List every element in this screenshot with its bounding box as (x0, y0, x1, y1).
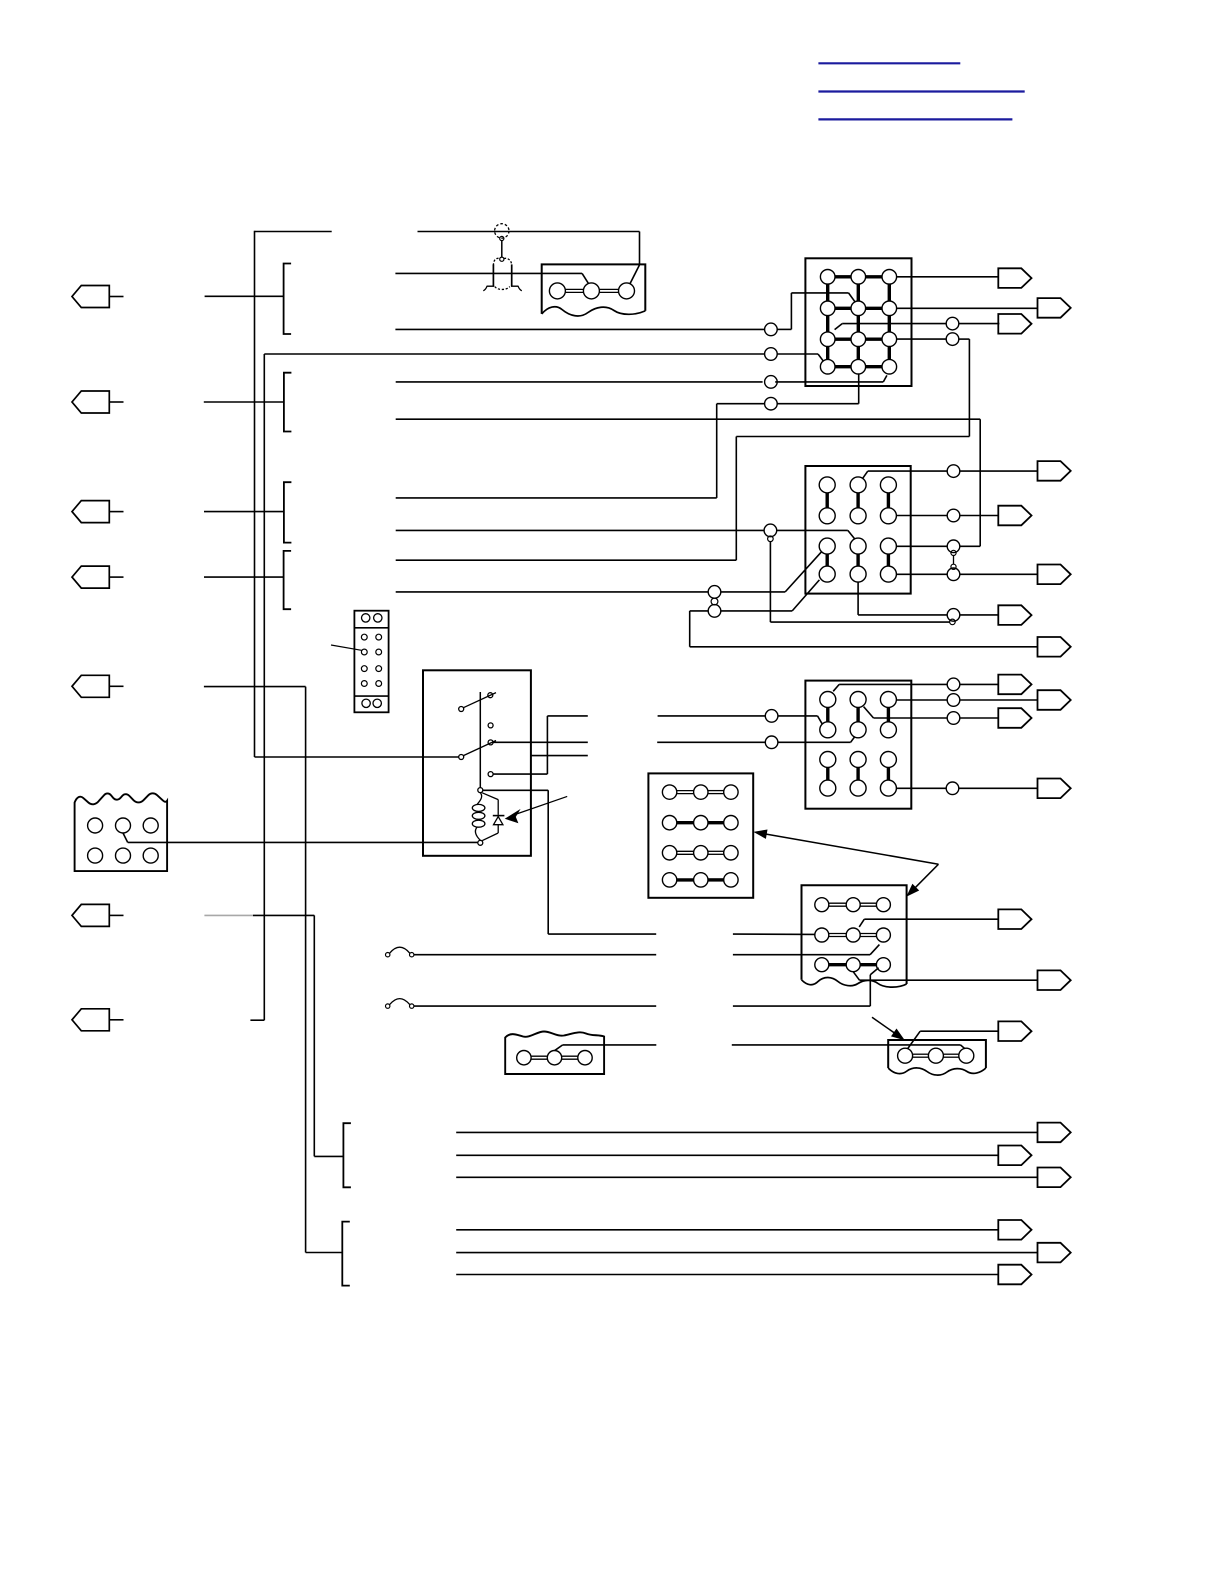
inline connector circles column x953 (946, 317, 959, 330)
pin (362, 699, 370, 707)
pin (662, 846, 676, 860)
relay switch2 contact (488, 740, 493, 745)
wire to connector T (456, 1252, 1037, 1254)
connector N (right) (1038, 970, 1071, 990)
pin (116, 818, 131, 833)
wire J3 r4c3 to connector L (896, 787, 946, 789)
J2 pin (819, 477, 835, 493)
J3 pin (880, 722, 896, 738)
double-headed reference arrow (766, 834, 938, 864)
splice bracket B6 (342, 1222, 350, 1286)
inline connector circle (765, 736, 778, 749)
J1 pin (851, 270, 866, 285)
J1 pin (851, 359, 866, 374)
terminal circle (549, 283, 565, 299)
connector S (right) (998, 1220, 1031, 1240)
relay contact lower (488, 772, 493, 777)
wire J1 r3c3 net (396, 559, 737, 561)
pin (143, 848, 158, 863)
J1 pin (820, 270, 835, 285)
J2 pin (850, 508, 866, 524)
fusible link double wire 1 (566, 288, 584, 290)
wire lamp stem (501, 241, 503, 257)
hyperlink underline 1 (818, 62, 960, 64)
J3 pin (850, 780, 866, 796)
relay mid contact (488, 723, 493, 728)
J3 pin (850, 752, 866, 768)
pin (361, 666, 367, 672)
wire 6-circle box to relay coil (123, 833, 128, 842)
splice bracket B1 (284, 264, 292, 335)
lamp L1 base terminal (500, 236, 504, 240)
rear harness connector (partial view, bottom right) (888, 1040, 986, 1068)
pin (846, 958, 860, 972)
wire CB2 to block5 r3c3 (414, 1005, 656, 1007)
pin (959, 1048, 974, 1063)
pin (88, 848, 103, 863)
pin (517, 1051, 531, 1065)
connector C2 (left) (72, 391, 109, 413)
inline connector circle (765, 710, 778, 723)
wire drop into fusible-link box (639, 232, 641, 265)
junction block J3 (805, 681, 911, 809)
wire C4 to splice bracket (204, 576, 284, 578)
wire block5 r2c2 to connector M (859, 919, 864, 927)
wire stub into J1 r4c3 (396, 381, 763, 383)
wire J2 r3c3 net to stub (396, 418, 981, 420)
pin (846, 928, 860, 942)
J1 pin (851, 332, 866, 347)
pin (724, 785, 738, 799)
wire J3 r1c1 to connector I (833, 684, 839, 691)
J3 pin (880, 752, 896, 768)
pin (662, 816, 676, 830)
wire connector D to J2 r4c1 (690, 646, 1038, 648)
pin (694, 816, 708, 830)
wire bus1 top segment a (255, 231, 332, 233)
circuit breaker CB2 (386, 1004, 390, 1008)
connector C3 (left) (72, 501, 109, 523)
pin (724, 873, 738, 887)
J1 pin (851, 301, 866, 316)
J3 pin (880, 780, 896, 796)
connector D (right) (1038, 637, 1071, 657)
wire J2 r1c2 to connector E (863, 471, 868, 478)
pin (694, 873, 708, 887)
leader line to connector block (331, 645, 362, 650)
lamp socket terminal (500, 257, 504, 261)
J3 pin (850, 692, 866, 708)
wire box3 to box2 (555, 1045, 563, 1051)
wire stub into J2 r3c2 (396, 529, 764, 531)
wire block5 r3c2 to connector N (853, 972, 859, 981)
wire J2 r2c3 to connector F (896, 515, 947, 517)
pin (116, 848, 131, 863)
wire J1 r1c3 to connector A (897, 276, 999, 278)
J1 pin (882, 359, 897, 374)
wire J1 r2c3 to connector B (897, 307, 1038, 309)
wire into fusible link right terminal (630, 265, 639, 284)
wire C6 down to bracket B5 (253, 914, 314, 916)
J1 pin (820, 332, 835, 347)
wire J3 r1c3 to connector J (896, 699, 947, 701)
pin (362, 614, 370, 622)
inline connector pair small (768, 536, 774, 542)
splice bracket B5 (343, 1123, 351, 1187)
connector H (right) (998, 605, 1031, 625)
connector P (right) (1038, 1123, 1071, 1143)
connector C1 (left) (72, 286, 109, 308)
J3 pin (820, 780, 836, 796)
connector M (right) (998, 909, 1031, 929)
J2 pin (850, 566, 866, 582)
relay switch1 lever (463, 693, 496, 708)
J2 pin (880, 477, 896, 493)
pin (876, 898, 890, 912)
wire branch from pair down to x953 (769, 542, 771, 623)
connector detail block B4v (648, 773, 753, 897)
pin (578, 1051, 592, 1065)
J3 pin (880, 692, 896, 708)
junction block J2 (805, 466, 910, 594)
terminal circle (619, 283, 635, 299)
relay switch1 pivot (459, 707, 464, 712)
connector T (right) (1038, 1243, 1071, 1263)
wire to connector U (456, 1274, 998, 1276)
wire C5 down to bracket B6 (204, 686, 306, 688)
box2 double links (913, 1053, 929, 1055)
J2 pin (819, 566, 835, 582)
connector C5 (left) (72, 675, 109, 697)
J3 internal bars (826, 708, 829, 722)
wire to connector P (456, 1131, 1037, 1133)
reference arrow to box2 (872, 1017, 896, 1034)
J2 pin (880, 566, 896, 582)
J3 pin (850, 722, 866, 738)
instrument panel connector (partial view, left) (75, 793, 168, 871)
wire bus1 vertical (254, 231, 256, 757)
connector J (right) (1038, 690, 1071, 710)
wire J2 r4c3 to connector G (896, 573, 947, 575)
wire to connector R (456, 1176, 1037, 1178)
J2 pin (850, 477, 866, 493)
splice bracket B4 (284, 551, 292, 609)
pin (876, 958, 890, 972)
fusible link double wire 2 (600, 288, 619, 290)
pin (662, 785, 676, 799)
connector K (right) (998, 708, 1031, 728)
label leader arrow to diode (517, 796, 568, 814)
pin (376, 666, 382, 672)
wire stub into J1 r4c2 (396, 497, 717, 499)
wire bus2 vertical (263, 354, 265, 1020)
wire relay to J3 r2c1 (547, 715, 587, 717)
wire stub into J2 r3c1 (396, 591, 709, 593)
pin (898, 1048, 913, 1063)
wire C1 to splice bracket (205, 295, 284, 297)
connector block 2x7 (354, 611, 388, 713)
connector L (right) (1038, 779, 1071, 799)
wire relay contact to J3 r2c2 (493, 741, 588, 743)
pin (815, 928, 829, 942)
inline connector pair big (764, 524, 777, 537)
J2 pin (819, 538, 835, 554)
junction block B5v (partial view) (802, 885, 907, 984)
connector C6 (left) (72, 904, 109, 926)
pin (373, 699, 381, 707)
box3 double links (531, 1055, 547, 1057)
wire bus2 bottom tick (250, 1019, 264, 1021)
wire bus2 to junction block J1 pin r4c1 (264, 353, 764, 355)
J1 pin (882, 270, 897, 285)
pin (724, 846, 738, 860)
wire relay lower contact to junction (493, 773, 547, 775)
connector A (right) (998, 268, 1031, 288)
connector C7 (left) (72, 1009, 109, 1031)
wire J2 r4c2 to connector H (857, 582, 859, 615)
J2 pin (880, 538, 896, 554)
pin (376, 634, 382, 640)
J3 pin (820, 692, 836, 708)
wire relay coil to block5 (483, 789, 548, 791)
relay coil top terminal (478, 788, 483, 793)
pin (361, 681, 367, 687)
wire to connector S (456, 1229, 998, 1231)
wire CB1 to block5 r2c3 (414, 954, 656, 956)
block5 row links (829, 902, 846, 904)
J3 pin (820, 752, 836, 768)
connector O (right) (998, 1021, 1031, 1041)
pin (361, 649, 367, 655)
J2 pin (850, 538, 866, 554)
wire J1 r3c1 to connector (835, 324, 843, 330)
connector R (right) (1038, 1168, 1071, 1188)
pin (928, 1048, 943, 1063)
wire C3 to splice bracket (204, 511, 284, 513)
connector B (right) (1038, 298, 1071, 318)
relay switch2 pivot (459, 755, 464, 760)
J2 internal bars (826, 493, 829, 508)
pin (662, 873, 676, 887)
wire bus1 top segment b (418, 231, 640, 233)
relay coil windings (472, 804, 485, 811)
wire C2 to splice bracket (204, 401, 284, 403)
fusible link block (partial view) (542, 264, 646, 314)
pin (876, 928, 890, 942)
J1 pin (882, 301, 897, 316)
wire box2 c1 to connector O (908, 1031, 921, 1048)
pin (815, 898, 829, 912)
connector F (right) (998, 506, 1031, 526)
J1 internal bus bars (835, 275, 851, 278)
relay diode D1 (482, 793, 498, 800)
wire stray segment right of relay (531, 755, 588, 757)
pin (361, 634, 367, 640)
J1 pin (882, 332, 897, 347)
block4 row links (677, 790, 694, 792)
wire bus1 to relay switch (255, 756, 460, 758)
fuel sender connector (partial view, bottom left) (505, 1032, 604, 1075)
pin (694, 785, 708, 799)
relay linkage line (479, 692, 481, 788)
connector G (right) (1038, 565, 1071, 585)
splice bracket B2 (284, 373, 292, 432)
pin (815, 958, 829, 972)
pin (846, 898, 860, 912)
wire into fusible link middle terminal (395, 272, 582, 274)
pin (374, 614, 382, 622)
J1 pin (820, 301, 835, 316)
J2 pin (819, 508, 835, 524)
relay coil bottom terminal (478, 840, 483, 845)
circuit breaker CB1 (386, 953, 390, 957)
J3 pin (820, 722, 836, 738)
lamp socket body (492, 264, 494, 286)
pin (547, 1051, 561, 1065)
hyperlink underline 2 (818, 90, 1024, 92)
inline connector pair x714 (708, 586, 721, 599)
pin (724, 816, 738, 830)
wire to connector Q (456, 1154, 998, 1156)
terminal circle (583, 283, 599, 299)
J1 pin (820, 359, 835, 374)
inline connector circles column x770 (765, 323, 778, 336)
junction block J1 (805, 258, 911, 386)
relay switch1 contact (488, 693, 493, 698)
connector Q (right) (998, 1146, 1031, 1166)
connector C (right) (998, 314, 1031, 334)
splice bracket B3 (284, 482, 292, 542)
relay switch2 lever (463, 741, 496, 756)
pin (694, 846, 708, 860)
pin (376, 681, 382, 687)
wire J3 r1c2 to connector K (864, 707, 874, 718)
connector C4 (left) (72, 566, 109, 588)
lamp L1 bulb (495, 224, 509, 238)
pin (143, 818, 158, 833)
pin (88, 818, 103, 833)
connector U (right) (998, 1265, 1031, 1285)
wire stub into J1 r2c2 (395, 328, 764, 330)
pin (376, 649, 382, 655)
connector I (right) (998, 675, 1031, 695)
wire C6 (faded segment) (204, 914, 253, 916)
relay R1 box (423, 670, 531, 856)
J2 pin (880, 508, 896, 524)
connector E (right) (1038, 461, 1071, 481)
hyperlink underline 3 (818, 118, 1012, 120)
